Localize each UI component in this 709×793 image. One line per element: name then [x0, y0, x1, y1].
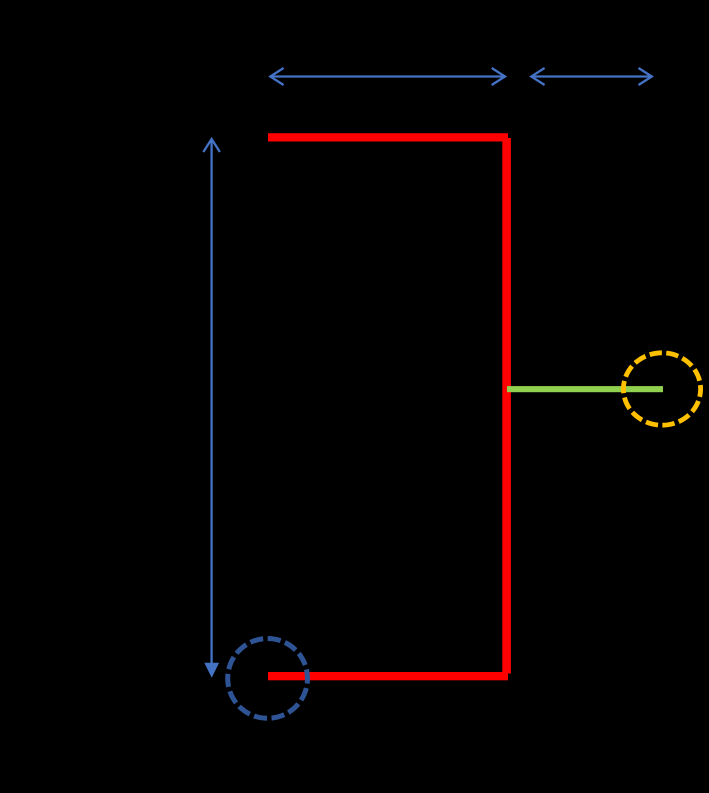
arrowhead (filled triangle, bottom of vertical arrow): [204, 663, 219, 678]
dimension arrow horizontal left (double-headed, open chevrons): [270, 68, 505, 85]
red line top: [268, 133, 508, 141]
red line right vertical: [502, 138, 511, 674]
dimension arrow vertical (open chevron top, filled triangle bottom): [203, 139, 220, 663]
dashed circle (orange, right): [623, 353, 700, 425]
green line: [507, 386, 663, 392]
dimension arrow horizontal right (double-headed, open chevrons): [531, 68, 652, 85]
red line bottom: [268, 672, 508, 680]
dashed circle (blue, bottom-left): [228, 639, 308, 719]
